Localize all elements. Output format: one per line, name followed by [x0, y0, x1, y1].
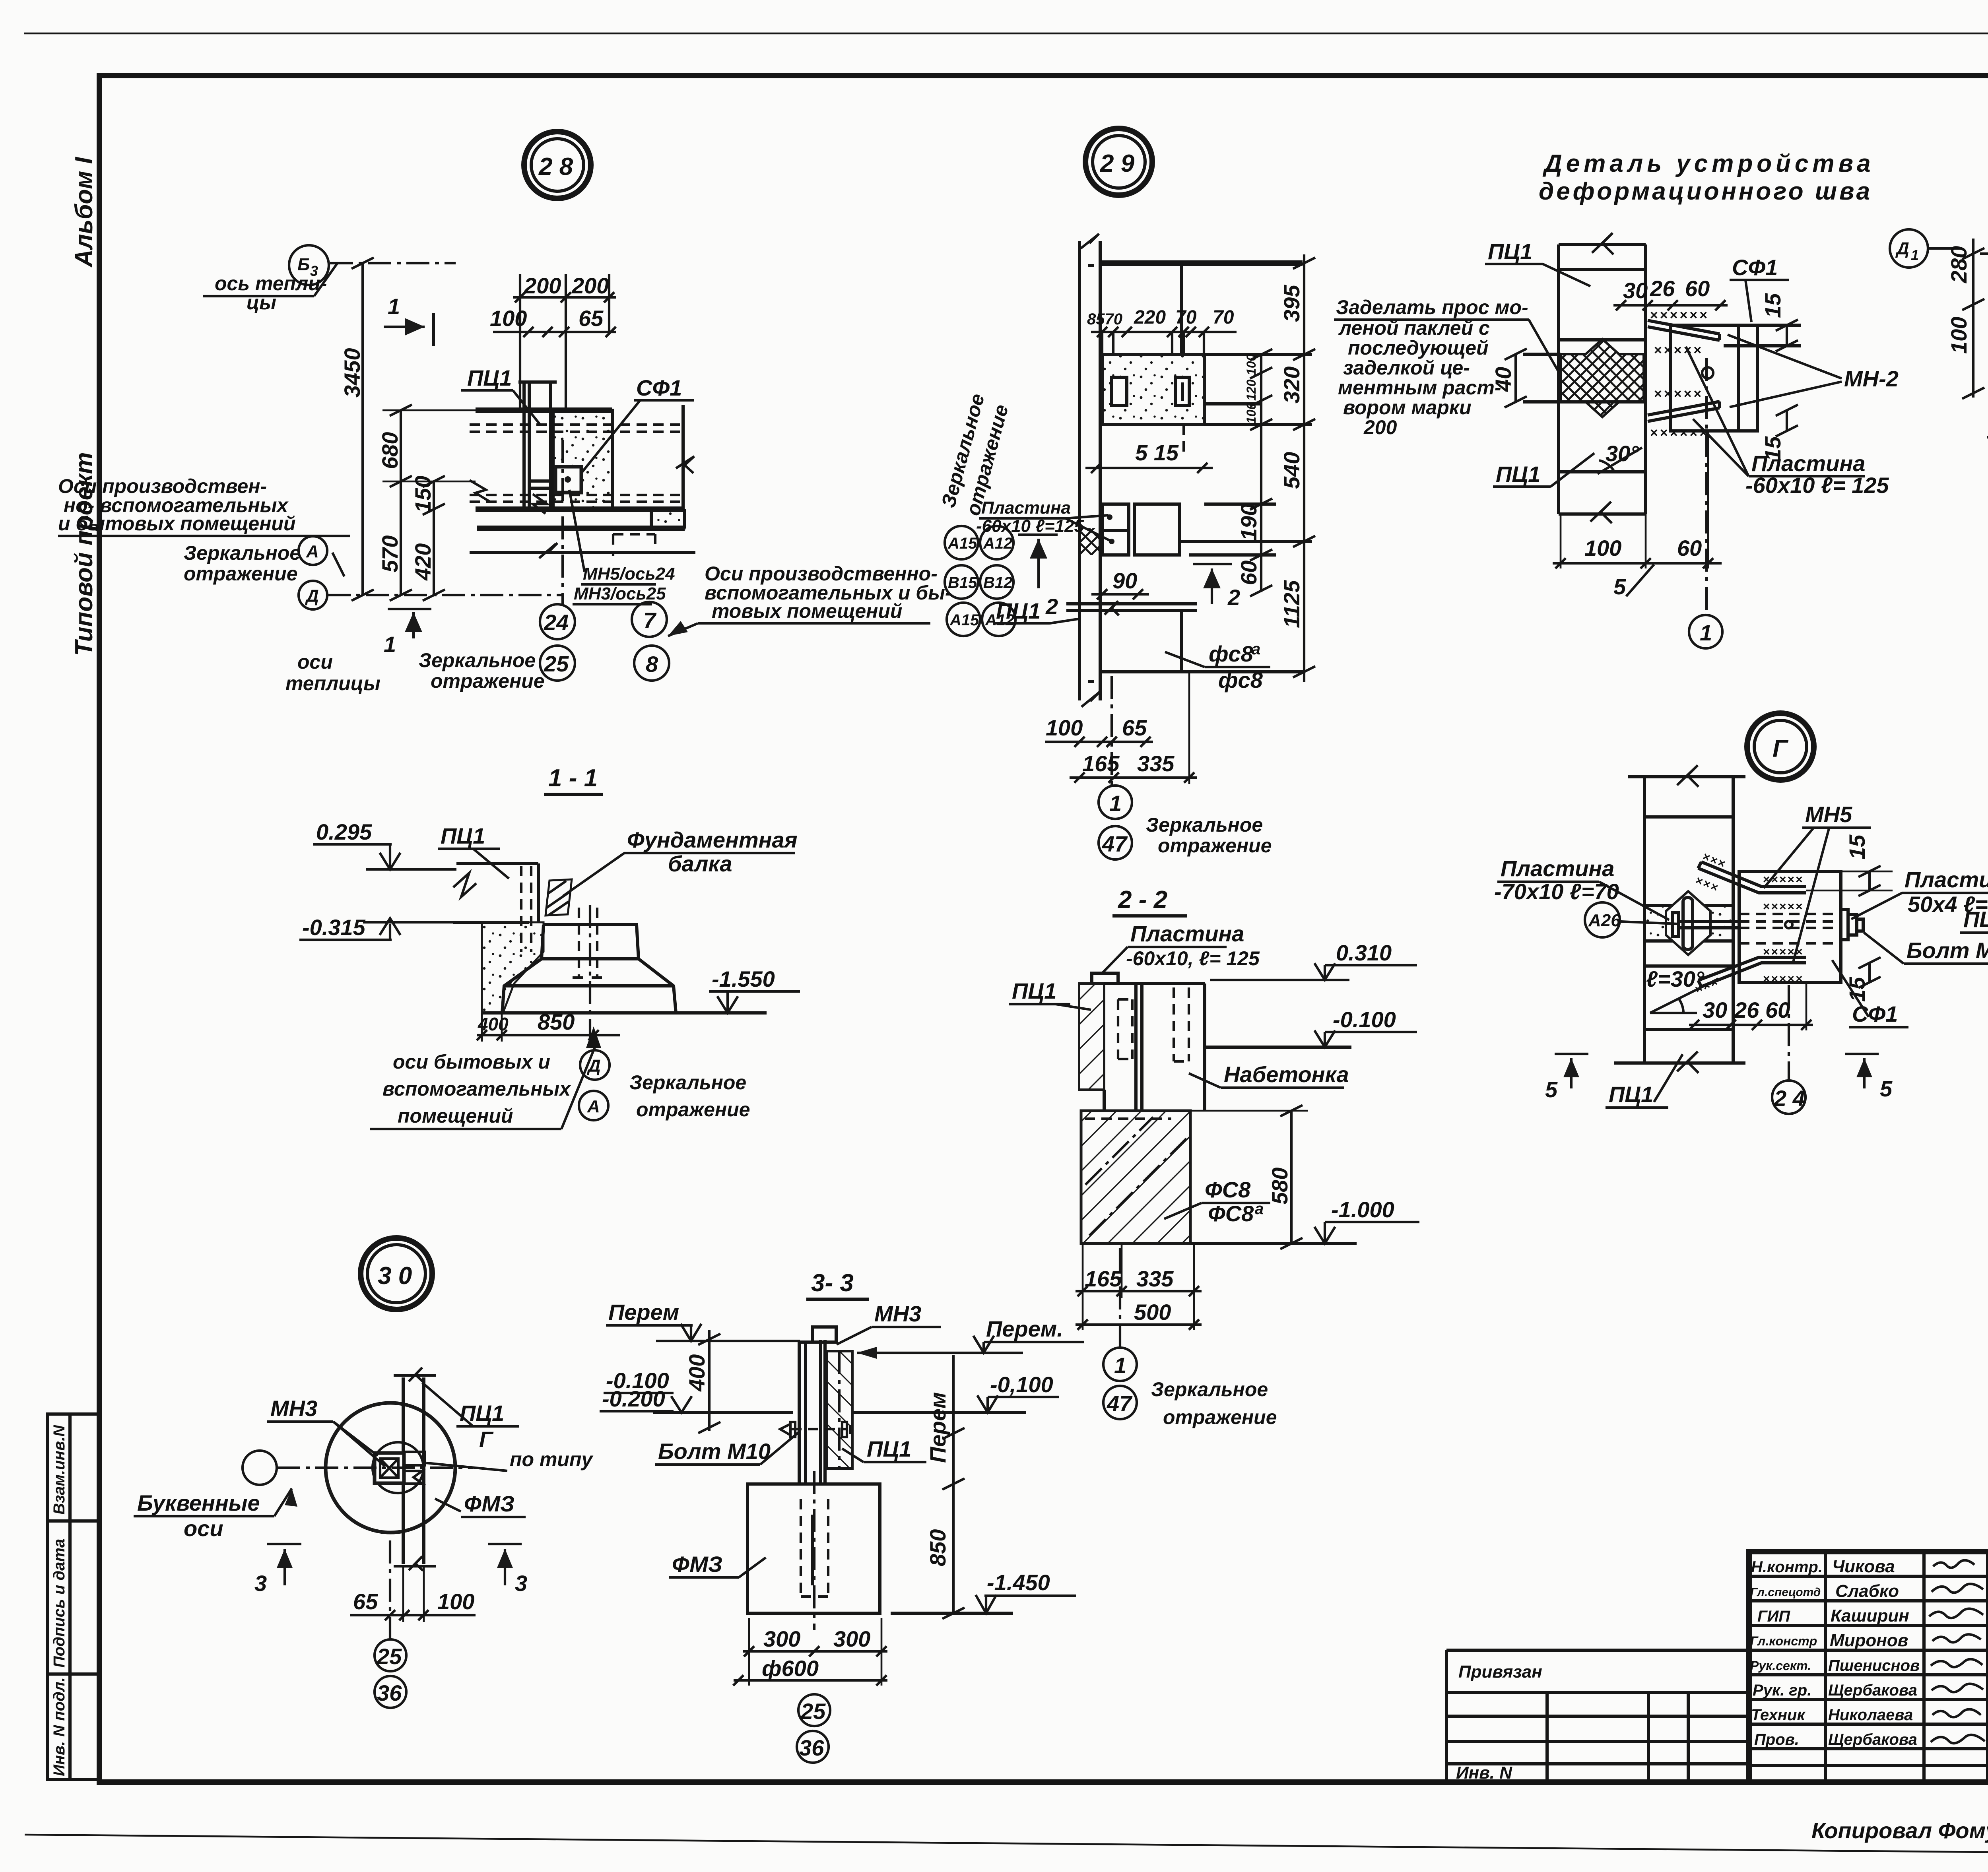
svg-text:8: 8	[646, 652, 658, 677]
svg-text:оси бытовых и: оси бытовых и	[393, 1051, 550, 1073]
svg-text:ПЦ1: ПЦ1	[867, 1436, 911, 1461]
top edge	[1100, 260, 1303, 266]
D29	[937, 128, 1315, 859]
svg-text:помещений: помещений	[398, 1105, 513, 1127]
svg-text:1: 1	[384, 632, 396, 657]
bolt	[1702, 367, 1713, 378]
svg-text:ПЦ1: ПЦ1	[1609, 1082, 1653, 1107]
svg-text:65: 65	[1122, 715, 1147, 740]
box СФ1 plan	[1739, 871, 1841, 982]
anchor washer diamond	[1666, 891, 1710, 955]
svg-text:300: 300	[763, 1626, 800, 1651]
svg-text:-0.100: -0.100	[1333, 1007, 1396, 1032]
svg-text:850: 850	[925, 1529, 950, 1566]
svg-text:Привязан: Привязан	[1458, 1662, 1542, 1682]
svg-text:1: 1	[1109, 791, 1122, 816]
bubble 36	[797, 1731, 829, 1763]
svg-text:Альбом I: Альбом I	[70, 156, 98, 268]
svg-text:0.295: 0.295	[316, 819, 372, 844]
svg-text:5: 5	[1880, 1076, 1893, 1101]
svg-text:335: 335	[1137, 751, 1175, 776]
dim 3450 vertical	[361, 263, 364, 595]
svg-text:заделкой це-: заделкой це-	[1343, 357, 1470, 379]
dim 400 850	[477, 1034, 620, 1036]
svg-text:деформационного шва: деформационного шва	[1539, 178, 1872, 205]
svg-text:36: 36	[799, 1735, 824, 1760]
JOINTA	[1334, 150, 1984, 648]
svg-text:24: 24	[544, 610, 569, 635]
svg-text:СФ1: СФ1	[1852, 1001, 1898, 1026]
dims 165 335	[1076, 1290, 1202, 1292]
svg-text:вспомогательных: вспомогательных	[382, 1078, 571, 1100]
svg-text:100: 100	[1046, 715, 1083, 740]
svg-text:60: 60	[1765, 997, 1790, 1022]
dim 500	[1076, 1323, 1202, 1326]
axis bubble Б3	[289, 245, 329, 285]
lower plate	[1648, 408, 1720, 421]
svg-text:70: 70	[1213, 307, 1234, 328]
wall plan strip	[402, 1377, 405, 1564]
svg-text:СФ1: СФ1	[1732, 255, 1778, 280]
concrete block with anchor	[553, 410, 612, 509]
wall strip	[1557, 244, 1560, 514]
strap lower	[1698, 957, 1806, 987]
svg-text:Перем: Перем	[608, 1300, 679, 1325]
svg-text:МН3: МН3	[874, 1301, 921, 1326]
svg-text:100: 100	[1244, 354, 1258, 375]
svg-text:3: 3	[254, 1571, 267, 1596]
axis bubble Д	[299, 581, 327, 609]
axis bubble Д1	[1890, 229, 1928, 268]
svg-text:400: 400	[478, 1014, 509, 1034]
bubble 47	[1103, 1386, 1137, 1419]
section mark 5 left	[1555, 1053, 1588, 1055]
svg-text:Зеркальное: Зеркальное	[629, 1071, 746, 1094]
svg-text:А15: А15	[949, 611, 979, 629]
svg-text:15: 15	[1760, 293, 1785, 318]
svg-text:ФМЗ: ФМЗ	[672, 1552, 722, 1577]
svg-text:3- 3: 3- 3	[811, 1269, 854, 1297]
svg-text:Щербакова: Щербакова	[1828, 1682, 1917, 1699]
dims 30 26 60	[1613, 304, 1728, 307]
anchor dashed	[573, 908, 603, 978]
dim 15 upper	[1868, 871, 1871, 890]
dim 15 lower	[1868, 963, 1871, 982]
svg-text:15: 15	[1844, 834, 1870, 859]
wall hatched	[1079, 984, 1104, 1090]
section mark 1 bottom	[388, 608, 431, 610]
svg-text:200: 200	[1363, 416, 1397, 438]
svg-text:65: 65	[353, 1589, 378, 1614]
detail 29 bubble	[1085, 128, 1152, 195]
svg-text:100: 100	[1584, 535, 1621, 561]
svg-text:товых помещений: товых помещений	[712, 600, 902, 622]
bottom edge	[1100, 670, 1304, 673]
svg-text:А: А	[306, 542, 319, 561]
fork box СФ1	[1670, 325, 1757, 431]
svg-text:-0.200: -0.200	[602, 1386, 665, 1411]
svg-text:ФС8: ФС8	[1205, 1177, 1251, 1202]
dim ф600	[734, 1679, 887, 1682]
axis line from Д1	[1980, 252, 1988, 255]
left attribute column table	[48, 1414, 99, 1779]
svg-text:Подпись и дата: Подпись и дата	[50, 1539, 68, 1668]
svg-text:-0,100: -0,100	[990, 1372, 1053, 1397]
svg-text:-60х10, ℓ= 125: -60х10, ℓ= 125	[1126, 947, 1260, 970]
axis to bubbles	[1119, 1248, 1121, 1348]
svg-text:ПЦ1: ПЦ1	[1496, 462, 1540, 487]
svg-text:570: 570	[377, 535, 402, 572]
foundation beam band	[477, 526, 685, 531]
svg-text:цы: цы	[247, 291, 276, 314]
beam ПЦ1	[456, 862, 538, 865]
strap upper	[1698, 862, 1806, 893]
svg-text:Пластина: Пластина	[1130, 921, 1244, 946]
svg-text:леной паклей с: леной паклей с	[1338, 317, 1490, 339]
S22	[1009, 886, 1419, 1428]
axis bubble А	[579, 1091, 608, 1120]
axis bubble А	[299, 536, 327, 565]
svg-text:Б: Б	[297, 255, 310, 274]
section mark 3 right	[488, 1543, 522, 1545]
svg-text:60: 60	[1236, 561, 1261, 585]
svg-text:Чикова: Чикова	[1832, 1557, 1895, 1576]
lines right of block	[1204, 353, 1312, 356]
svg-text:65: 65	[579, 306, 604, 331]
svg-text:Рук. гр.: Рук. гр.	[1753, 1682, 1811, 1699]
axis bubble empty	[243, 1451, 277, 1485]
hatched beam end	[546, 879, 572, 916]
S33	[600, 1269, 1084, 1763]
big circle	[326, 1403, 455, 1533]
title block column lines	[1824, 1552, 1827, 1782]
svg-text:Зеркальное: Зеркальное	[1151, 1378, 1268, 1401]
outer thin sheet edge line top	[24, 33, 1988, 35]
backfill dotted	[482, 922, 544, 1013]
axis of anchor vertical	[561, 440, 564, 604]
foundation block	[1081, 1111, 1190, 1243]
axis bubble Д	[580, 1050, 610, 1080]
svg-text:×××××: ×××××	[1763, 972, 1804, 985]
lower band	[470, 551, 695, 554]
svg-text:Пластина: Пластина	[1751, 451, 1865, 476]
dim 15 lower	[1786, 410, 1788, 431]
svg-text:ПЦ1: ПЦ1	[1012, 978, 1056, 1003]
right end of slab	[681, 405, 685, 509]
svg-text:Пластин: Пластин	[1905, 867, 1988, 892]
ground line	[653, 1411, 793, 1414]
svg-text:Зеркальное: Зеркальное	[184, 542, 301, 564]
detail 28 bubble	[524, 132, 591, 198]
svg-text:×××××: ×××××	[1763, 873, 1804, 886]
svg-text:100: 100	[490, 306, 527, 331]
NODEG	[1494, 713, 1988, 1114]
svg-text:1: 1	[1114, 1353, 1126, 1378]
svg-text:Пластина: Пластина	[1501, 856, 1614, 881]
svg-text:-1.000: -1.000	[1331, 1197, 1394, 1222]
svg-text:2 4: 2 4	[1774, 1086, 1805, 1111]
svg-text:МН3/ось25: МН3/ось25	[574, 584, 666, 603]
section mark 2 left	[1018, 533, 1058, 536]
wall strip	[1643, 777, 1646, 1063]
dim 680 570 chain	[400, 410, 402, 595]
svg-text:Пластина: Пластина	[981, 498, 1071, 518]
outer dim chain	[1303, 254, 1305, 682]
bubble 47	[1099, 826, 1132, 859]
svg-text:Гл.констр: Гл.констр	[1750, 1634, 1817, 1648]
svg-text:26: 26	[1734, 997, 1759, 1022]
svg-text:Г: Г	[479, 1427, 494, 1452]
STAMP	[1446, 1552, 1988, 1784]
svg-text:отражение: отражение	[1158, 834, 1272, 857]
svg-text:540: 540	[1279, 452, 1304, 489]
svg-text:Инв. N подл.: Инв. N подл.	[50, 1677, 68, 1776]
svg-text:25: 25	[544, 651, 569, 676]
МН3 anchor square	[375, 1453, 404, 1483]
column	[522, 382, 526, 509]
svg-text:1125: 1125	[1279, 580, 1304, 628]
section mark 5 right	[1845, 1053, 1879, 1055]
svg-text:Д: Д	[1895, 239, 1909, 258]
svg-text:В12: В12	[983, 574, 1012, 592]
upper blocks	[1104, 982, 1205, 985]
column	[798, 1342, 801, 1484]
svg-text:1: 1	[1700, 620, 1712, 645]
svg-text:5 15: 5 15	[1135, 440, 1179, 465]
svg-text:Пров.: Пров.	[1754, 1731, 1799, 1748]
section mark 3 left	[267, 1543, 301, 1545]
svg-text:А26: А26	[1588, 911, 1621, 930]
svg-text:500: 500	[1134, 1300, 1171, 1325]
svg-text:Деталь устройства: Деталь устройства	[1542, 150, 1875, 177]
svg-text:отражение: отражение	[184, 563, 298, 585]
svg-text:Инв. N: Инв. N	[1456, 1763, 1512, 1783]
svg-text:Щербакова: Щербакова	[1828, 1731, 1917, 1748]
svg-text:ПЦ1: ПЦ1	[1963, 907, 1988, 932]
svg-text:100: 100	[437, 1589, 474, 1614]
svg-text:Заделать прос мо-: Заделать прос мо-	[1336, 296, 1528, 318]
svg-text:Техник: Техник	[1751, 1706, 1806, 1724]
caulked seam	[1561, 339, 1644, 417]
svg-text:320: 320	[1279, 367, 1304, 403]
dims 30 26 60	[1689, 1024, 1813, 1026]
svg-text:оси: оси	[184, 1516, 223, 1541]
bubbles 7 8	[632, 602, 667, 637]
svg-text:280: 280	[1946, 246, 1971, 283]
signatures	[1933, 1560, 1974, 1568]
bubble 36	[375, 1676, 406, 1708]
svg-text:120: 120	[1244, 379, 1258, 401]
bolt	[791, 1428, 847, 1430]
foundation block	[747, 1484, 880, 1613]
svg-text:0.310: 0.310	[1336, 940, 1392, 965]
svg-text:Слабко: Слабко	[1835, 1581, 1899, 1601]
foundation pedestal	[502, 925, 676, 1013]
svg-text:А: А	[587, 1097, 600, 1116]
svg-text:90: 90	[1112, 568, 1137, 593]
bubble 25	[375, 1639, 406, 1671]
dim 580	[1290, 1111, 1293, 1243]
svg-text:МН-2: МН-2	[1844, 366, 1899, 391]
slab bottom edge	[476, 506, 685, 512]
bubbles А15 А12 В15 В12	[945, 526, 978, 559]
svg-text:26: 26	[1650, 276, 1675, 301]
svg-text:вором марки: вором марки	[1343, 396, 1472, 419]
svg-text:2: 2	[1045, 594, 1058, 619]
svg-text:и бытовых помещений: и бытовых помещений	[58, 512, 296, 535]
svg-text:36: 36	[377, 1680, 402, 1705]
bubble А26	[1585, 902, 1620, 937]
svg-text:Д: Д	[305, 586, 319, 606]
svg-text:××××××: ××××××	[1650, 308, 1709, 323]
svg-text:2 - 2: 2 - 2	[1118, 886, 1167, 914]
svg-text:200: 200	[524, 273, 561, 298]
svg-text:1 - 1: 1 - 1	[548, 764, 598, 792]
svg-text:150: 150	[410, 476, 435, 513]
svg-text:1: 1	[1911, 247, 1919, 263]
dims 300 300	[743, 1650, 887, 1653]
dim 400	[708, 1330, 711, 1431]
anchor dashed	[801, 1499, 828, 1597]
outer thin sheet edge line bottom	[25, 1835, 1988, 1857]
svg-text:8570: 8570	[1087, 310, 1122, 328]
svg-text:Н.контр.: Н.контр.	[1751, 1558, 1823, 1576]
node Г bubble	[1747, 713, 1814, 780]
connection bits	[404, 1452, 425, 1465]
anchor plate bar	[1683, 898, 1693, 949]
svg-text:×××××: ×××××	[1654, 386, 1703, 402]
svg-text:30: 30	[1703, 997, 1727, 1022]
dim 40	[1514, 354, 1517, 402]
svg-text:А12: А12	[983, 535, 1012, 552]
title block outer border	[1749, 1552, 1988, 1782]
svg-text:70: 70	[1175, 307, 1197, 328]
svg-text:ФМЗ: ФМЗ	[464, 1491, 514, 1516]
svg-text:Перем: Перем	[925, 1392, 950, 1463]
svg-text:Взам.инв.N: Взам.инв.N	[50, 1425, 68, 1515]
svg-text:отражение: отражение	[636, 1098, 750, 1121]
svg-text:-0.315: -0.315	[302, 915, 366, 940]
axis to bubbles	[389, 1540, 391, 1638]
svg-text:420: 420	[410, 543, 435, 581]
connection node	[1102, 504, 1129, 555]
lintel hatched	[827, 1351, 852, 1469]
dims 100 60	[1553, 562, 1722, 565]
svg-text:Рук.сект.: Рук.сект.	[1750, 1659, 1811, 1673]
bubble 1	[1103, 1348, 1137, 1381]
svg-text:ментным раст-: ментным раст-	[1338, 376, 1501, 399]
signature row lines	[1749, 1575, 1988, 1578]
svg-text:47: 47	[1107, 1391, 1133, 1416]
svg-text:165: 165	[1085, 1266, 1122, 1291]
svg-text:5: 5	[1545, 1077, 1558, 1102]
bubbles 24 25	[540, 604, 575, 639]
svg-text:ПЦ1: ПЦ1	[441, 823, 485, 848]
svg-text:оси: оси	[297, 651, 333, 673]
svg-text:-1.450: -1.450	[987, 1570, 1050, 1595]
cap plate	[1092, 973, 1118, 984]
slab dashed lines	[470, 423, 683, 426]
svg-text:335: 335	[1136, 1266, 1174, 1291]
svg-text:ПЦ1: ПЦ1	[996, 598, 1041, 623]
svg-text:МН3: МН3	[270, 1396, 317, 1421]
svg-text:Гл.спецотд: Гл.спецотд	[1750, 1586, 1821, 1599]
svg-text:отражение: отражение	[1163, 1406, 1277, 1428]
svg-text:а: а	[1255, 1200, 1264, 1218]
svg-text:а: а	[1252, 640, 1260, 658]
svg-text:1: 1	[388, 294, 400, 319]
svg-text:×××××: ×××××	[1763, 900, 1804, 913]
svg-text:отражение: отражение	[431, 670, 545, 692]
svg-text:Буквенные: Буквенные	[137, 1490, 260, 1515]
svg-text:Николаева: Николаева	[1828, 1706, 1913, 1724]
detail 30 bubble	[361, 1238, 432, 1309]
svg-text:25: 25	[800, 1699, 826, 1724]
dim 150 420 chain	[433, 481, 435, 595]
svg-text:300: 300	[833, 1626, 870, 1651]
svg-text:Зеркальное: Зеркальное	[419, 649, 536, 671]
svg-text:Набетонка: Набетонка	[1224, 1062, 1349, 1087]
svg-text:×××××: ×××××	[1654, 343, 1703, 358]
wall strip	[1078, 241, 1081, 700]
dim 280 100	[1972, 239, 1974, 398]
floor line	[1066, 602, 1197, 605]
svg-text:190: 190	[1236, 504, 1261, 541]
svg-text:5: 5	[1613, 574, 1626, 599]
svg-text:фс8: фс8	[1209, 641, 1254, 666]
svg-text:30: 30	[1623, 278, 1648, 303]
svg-text:МН5/ось24: МН5/ось24	[583, 564, 675, 584]
svg-text:Фундаментная: Фундаментная	[627, 827, 798, 852]
axis of wall	[1110, 676, 1113, 785]
svg-text:580: 580	[1267, 1168, 1292, 1205]
svg-text:60: 60	[1685, 276, 1710, 301]
svg-text:400: 400	[684, 1354, 709, 1392]
svg-text:ф600: ф600	[762, 1656, 819, 1681]
svg-text:ПЦ1: ПЦ1	[467, 365, 512, 390]
svg-text:балка: балка	[668, 851, 732, 876]
svg-text:Миронов: Миронов	[1830, 1631, 1908, 1650]
svg-text:680: 680	[377, 432, 402, 469]
slab top edge	[476, 407, 612, 413]
dim 200 200	[513, 296, 616, 299]
svg-text:Болт М10: Болт М10	[1906, 938, 1988, 963]
svg-text:-60х10 ℓ= 125: -60х10 ℓ= 125	[1745, 473, 1889, 498]
console under column	[530, 479, 553, 483]
svg-text:25: 25	[377, 1644, 402, 1669]
svg-text:Зеркальное: Зеркальное	[1146, 814, 1263, 836]
svg-text:Копировал Фомушкина: Копировал Фомушкина	[1811, 1818, 1988, 1843]
svg-text:ФС8: ФС8	[1208, 1201, 1254, 1226]
svg-text:Перем.: Перем.	[986, 1316, 1063, 1341]
dim 100 65	[493, 331, 616, 333]
svg-text:100: 100	[1946, 317, 1971, 354]
svg-text:3: 3	[515, 1571, 527, 1596]
svg-text:СФ1: СФ1	[636, 375, 682, 400]
axis line top	[330, 262, 456, 264]
bubble 1	[1099, 786, 1132, 819]
svg-text:100: 100	[1244, 402, 1258, 424]
bolt shaft	[1679, 920, 1739, 923]
svg-text:395: 395	[1279, 285, 1304, 322]
axis line	[277, 1467, 473, 1469]
svg-text:-1.550: -1.550	[712, 966, 775, 991]
attachment table Привязан	[1446, 1649, 1749, 1652]
svg-text:Пшениснов: Пшениснов	[1828, 1657, 1920, 1674]
bubble 24	[1788, 985, 1790, 1080]
svg-text:теплицы: теплицы	[285, 672, 381, 694]
section mark 2 right	[1193, 563, 1232, 565]
